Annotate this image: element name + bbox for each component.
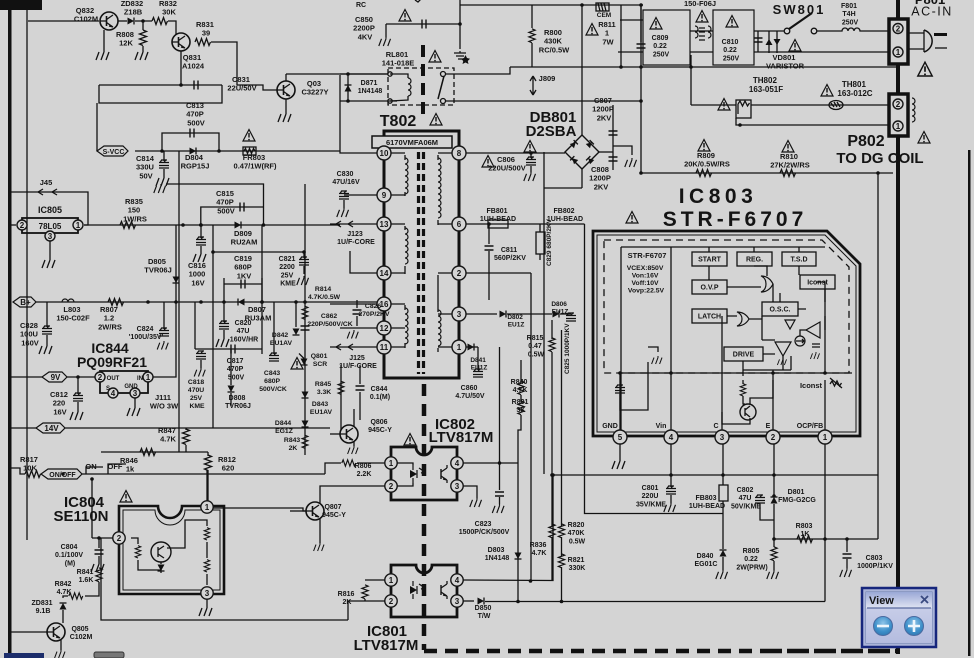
resistor R807 [108,299,124,306]
svg-text:C803 1000P/1KV: C803 1000P/1KV [857,555,893,570]
pin IC802-1 [385,457,397,469]
wire d808 v [230,349,232,385]
wire C816 drop [200,225,202,238]
jumper J125 arrows [336,344,353,350]
svg-text:TH801 163-012C: TH801 163-012C [837,80,872,98]
resistor R812 [205,455,212,471]
wire C816 gnd2 [200,246,202,252]
svg-text:Q03 C3227Y: Q03 C3227Y [301,79,328,97]
wire IC802 p2 left [320,486,385,503]
capacitor C844 [356,386,365,390]
pin IC804-2 [113,532,125,544]
svg-text:O.S.C.: O.S.C. [769,307,790,314]
capacitor C802 [755,495,765,504]
wire r805 dn [773,561,775,570]
pin T802-9 [377,188,391,202]
capacitor C8 filter [637,44,646,48]
svg-text:R807 1.2 2W/RS: R807 1.2 2W/RS [98,305,122,331]
wire col531 [530,273,532,581]
pin IC802-3 [451,480,463,492]
warning L801 [696,11,708,23]
svg-text:R831 39: R831 39 [196,20,216,38]
wire Q806 base [330,433,340,435]
wire fb802 down [539,224,541,232]
pin IC803-3 [715,430,729,444]
fuse F801 [838,28,864,31]
block Iconst [800,275,835,289]
node d871 b [346,99,350,103]
regulator IC844 box [100,371,148,393]
wire vin cap [620,373,648,410]
wire c826 v [356,300,358,308]
svg-text:R841 1.6K: R841 1.6K [77,569,96,584]
svg-text:D843 EU1AV: D843 EU1AV [310,401,333,416]
transformer core dashes [417,152,420,374]
bus 179 [178,151,180,452]
svg-text:C: C [713,423,718,430]
svg-text:R805 0.22 2W(PRW): R805 0.22 2W(PRW) [736,548,767,571]
optocoupler IC801 box [391,565,457,617]
svg-text:3: 3 [457,310,462,319]
relay contacts [388,72,392,76]
inductor L801 wb [708,26,711,38]
svg-text:TH802 163-051F: TH802 163-051F [749,76,783,94]
node rail 183 [181,223,185,227]
pin IC801-1 [385,574,397,586]
svg-text:R820 470K 0.5W: R820 470K 0.5W [568,522,587,545]
wire bridge bottom [581,169,583,188]
ground C804 [91,562,104,572]
svg-text:Q831 A1024: Q831 A1024 [182,53,205,71]
wire C814 gnd [163,169,165,176]
ground IC805 [42,258,55,268]
svg-text:R808 12K: R808 12K [116,30,136,48]
zener D871 [345,85,352,92]
ground IC804 pin3 [199,606,212,616]
wire c811 dn [488,251,490,258]
wire onoff drop [91,479,93,538]
wire hv rail [641,172,893,174]
wire R835 rail [84,224,340,226]
wire J45 [11,192,88,225]
wire c817 l [194,302,196,349]
capacitor C819 [241,280,245,289]
node 262-302 [260,300,264,304]
pin T802-16 [377,297,391,311]
node svcc left [160,149,164,153]
wire Q806 e [353,442,355,446]
svg-text:L803 150-C02F: L803 150-C02F [56,305,90,323]
wire C831 loop [99,85,222,103]
svg-text:3: 3 [455,597,460,606]
svg-text:R840 4.7K: R840 4.7K [511,379,530,394]
ground IC802 p3 [470,498,482,507]
wire d803 col [517,463,519,602]
pin IC801-3 [451,595,463,607]
wire col521b [520,395,522,402]
svg-text:D805 TVR06J: D805 TVR06J [144,257,172,275]
block REG [737,252,772,266]
ic803 internal wires [709,247,825,384]
capacitor C815 [240,203,244,212]
pin IC805-1 [73,220,83,230]
svg-text:R810 27K/2W/RS: R810 27K/2W/RS [770,152,810,170]
svg-text:D802 EU1Z: D802 EU1Z [507,314,524,329]
svg-text:LTV817M: LTV817M [429,429,494,446]
svg-text:TO DG COIL: TO DG COIL [836,150,923,167]
svg-text:C824 '100U/35V': C824 '100U/35V' [129,326,164,341]
bus 262 [261,225,263,302]
pin T802-1 [452,340,466,354]
wire filter mid2 [690,51,713,53]
capacitor C826 [353,310,362,314]
transistor Q806 [340,425,358,443]
ground C821 [297,276,309,285]
resistor R842 [69,593,83,599]
net flag 14V [36,423,65,433]
svg-text:STR-F6707: STR-F6707 [663,208,808,231]
led IC802 inner [410,465,425,483]
wire C828 drop [46,302,48,327]
wire col499 [499,347,501,463]
pin T802-10 [377,146,391,160]
svg-text:STR-F6707: STR-F6707 [628,251,667,260]
wire pin2 dn [773,444,775,496]
wire C812 drop [77,377,79,394]
resistor R835 [120,222,136,229]
svg-text:C812 220 16V: C812 220 16V [50,390,70,416]
ic IC803 dashed box [604,240,849,373]
svg-text:2: 2 [457,269,462,278]
zener D842 [293,329,300,336]
ground D840 [716,570,728,579]
wire right edge vertical [968,150,971,656]
warning DB801 [524,141,536,153]
jumper J809 arrows [530,76,536,95]
winding connect right [438,153,452,352]
wire 641 gap [640,5,642,42]
svg-text:IC805: IC805 [38,205,62,215]
zener ZD831 [60,603,67,610]
svg-text:C850 2200P 4KV: C850 2200P 4KV [353,15,377,41]
pin P802-1 [893,121,903,131]
wire c826 v2 [356,316,358,326]
wire pin8 right [466,152,565,154]
svg-text:12: 12 [380,324,389,333]
resistor R832 [152,18,168,25]
wire pin4 dn [670,444,672,487]
capacitor C830 [339,191,349,200]
block START [692,252,727,266]
svg-text:C801 220U 35V/KME: C801 220U 35V/KME [636,485,666,508]
wire c807 col [612,105,614,170]
wire C813 branch [162,133,219,151]
wire c807 gnd stub [613,146,632,155]
warning IC801 [291,358,303,370]
node Q831-C831 [179,83,183,87]
svg-text:Vin: Vin [656,423,667,430]
wire R806 left [325,463,341,474]
winding connect left [391,153,405,348]
jumper J123 arrows [336,221,353,227]
ground R808 [135,50,148,60]
ground C812 [70,410,83,420]
svg-text:3: 3 [133,389,138,398]
wire C821 drop [303,252,305,258]
wire IC804 net2 [138,560,161,573]
resistor R801 [518,401,524,415]
ground C814 [156,176,169,186]
pin T802-11 [377,340,391,354]
zener ZD832 [128,18,135,25]
wire c850 vert [459,0,461,49]
wire bottom isolation dashed [424,649,760,654]
warning relay core [429,51,441,63]
wire R842 left [63,596,68,598]
wire IC801 p3 [463,600,474,602]
wire R817 in [11,468,25,474]
svg-text:LTV817M: LTV817M [354,637,419,654]
node pin6 fb [487,222,491,226]
wire col489 [488,258,490,300]
phototransistor IC802 inner [441,465,447,483]
svg-text:C819 680P 1KV: C819 680P 1KV [234,254,254,280]
thermistor TH802 [736,100,751,118]
wire c823 gnd [499,497,501,504]
svg-text:R846 1k: R846 1k [120,456,140,474]
wire sw left [754,30,784,32]
svg-text:1: 1 [76,221,81,230]
pin IC803-5 [613,430,627,444]
svg-text:RL801 141-018E: RL801 141-018E [382,50,415,68]
resistor R806 [342,460,356,466]
net flag B+ [13,297,36,307]
relay coil RL801 [408,78,411,96]
relay core dashes [421,45,425,120]
ground C807 [625,158,637,167]
ground Q807 [314,543,324,551]
ground R805 [767,570,779,579]
node R832-R808 [141,19,145,23]
node 213-252 [211,250,215,254]
capacitor C823 [495,492,504,496]
svg-text:2: 2 [20,221,25,230]
wire C821 rail [213,251,304,253]
wire d840 dn [722,557,724,570]
svg-text:C809 0.22 250V: C809 0.22 250V [652,35,671,58]
svg-text:R816 2K: R816 2K [338,591,357,606]
svg-text:R815 0.47 0.5W: R815 0.47 0.5W [527,335,546,358]
isolation barrier vertical dashed [422,384,427,650]
connector P802 [889,94,908,136]
block LATCH [692,309,727,323]
wire Q805 base [11,631,47,633]
svg-text:C814 330U 50V: C814 330U 50V [136,154,156,180]
wire IC805 in [11,224,16,226]
zener D802 [500,311,507,318]
svg-text:2: 2 [896,25,901,34]
wire R831 right [211,42,237,85]
wire pin1 dn [824,444,826,602]
regulator IC805 box [22,218,78,233]
pin IC805-3 [45,231,55,241]
ferrite bead FB801 [488,220,508,228]
resistor R840 [518,381,524,395]
capacitor C843 [269,353,279,362]
svg-text:CEM: CEM [597,12,611,19]
ic IC803 inner box [621,247,825,433]
node B+ 262 [260,300,264,304]
wire IC802 p4 [463,462,518,464]
capacitor C811 [485,246,494,250]
svg-text:B+: B+ [20,298,31,307]
wire IC804 net3 [160,562,162,564]
wire C811 drop [488,224,490,244]
wire IC804 pin3 down [206,599,208,606]
wire IC804 pin1 up [206,470,208,501]
wire zd831 down [62,610,64,623]
capacitor C808cap [609,157,618,161]
node 9V C812 [76,375,80,379]
svg-text:C815 470P 500V: C815 470P 500V [216,189,236,215]
svg-text:R835 150 1W/RS: R835 150 1W/RS [123,197,147,223]
capacitor C801 [666,486,676,495]
svg-text:D840 EG01C: D840 EG01C [695,553,718,568]
transistor IC804 inner [151,542,171,562]
wire d802-d806 [507,313,552,315]
svg-text:P802: P802 [847,133,884,150]
wire IC802 p2 [397,483,413,486]
svg-text:Q832 C102M: Q832 C102M [74,6,98,24]
svg-text:6: 6 [457,220,462,229]
wire drive tr [743,396,745,404]
svg-text:R847 4.7K: R847 4.7K [158,426,178,444]
wire pin10 left [340,75,377,153]
wire pin3 dn [722,444,724,485]
diode D804 [190,148,197,155]
bus 213 [212,225,214,428]
resistor R843 [302,435,308,448]
wire IC801 p4 [463,475,553,581]
block OSC [762,302,798,316]
svg-text:C829 680P/2KV: C829 680P/2KV [546,218,553,266]
svg-text:Q807 945C-Y: Q807 945C-Y [322,504,346,519]
wire 691 v [690,55,692,105]
resistor R846 [140,449,156,456]
capacitor C825 [566,313,576,322]
svg-text:1: 1 [205,503,210,512]
wire c823 drop [499,463,501,490]
wire relay left bot [340,100,397,102]
svg-text:14: 14 [380,269,389,278]
wire IC804 net5 [206,542,208,558]
svg-text:C862 220P/500V/CK: C862 220P/500V/CK [307,313,352,328]
wire pin6 right [466,223,585,225]
svg-text:C818 470U 25V KME: C818 470U 25V KME [188,379,206,410]
node c850 [458,22,462,26]
svg-text:C844 0.1(M): C844 0.1(M) [370,386,390,401]
capacitor C804 [95,550,104,554]
wire c850 rail [386,23,460,25]
svg-text:C830 47U/16V: C830 47U/16V [332,171,360,186]
wire IC802 p3 [463,486,477,498]
svg-text:4: 4 [455,576,460,585]
svg-text:D850 T/W: D850 T/W [475,605,494,620]
resistor R817 [25,471,41,478]
wire Q805 emitter [60,640,62,650]
wire col552 upper [551,320,553,339]
svg-text:FB803 1UH-BEAD: FB803 1UH-BEAD [689,495,725,510]
wire col521c [518,415,521,463]
wire Q832 top rail [28,20,99,22]
capacitor C824 [159,328,169,337]
current source circle [795,336,805,346]
wire bridge right [599,151,613,153]
node pin8 c806 [529,151,533,155]
line filter box L801 right [713,10,754,65]
node B+ 201 [199,300,203,304]
wire d808 v2 [230,393,232,406]
svg-text:Q805 C102M: Q805 C102M [70,626,93,641]
node v373 [669,371,673,375]
capacitor C803 [843,554,852,558]
svg-text:6170VMFA06M: 6170VMFA06M [386,138,438,147]
svg-text:2: 2 [117,534,122,543]
pin IC844-3 [130,388,140,398]
node fb373 [823,371,827,375]
diode D808 [228,386,235,393]
transistor Q832 [100,12,118,30]
zener D844 [302,421,309,428]
svg-text:R814 4.7K/0.5W: R814 4.7K/0.5W [308,286,341,301]
svg-text:1: 1 [823,433,828,442]
svg-text:C820 47U 160V/HR: C820 47U 160V/HR [230,320,258,343]
wire R808 top [142,21,144,30]
node ac 621 [619,65,623,69]
bus 341 [340,365,342,430]
svg-text:C831 22U/50V: C831 22U/50V [227,75,256,93]
ic803 pin row wires [620,247,852,431]
wire c810 v [757,31,759,52]
node 201-225 [199,223,203,227]
wire pin12 left [340,327,377,329]
node ac 691 [689,65,693,69]
wire IC805 gnd [49,241,51,258]
svg-text:5: 5 [618,433,623,442]
node B+ 176 [174,300,178,304]
wire col561 [561,330,563,526]
opamp A1 [806,322,820,338]
svg-text:C823 1500P/CK/500V: C823 1500P/CK/500V [459,521,510,536]
svg-text:SE110N: SE110N [53,508,108,525]
wire C828 gnd [46,335,48,344]
svg-text:R836 4.7K: R836 4.7K [530,542,549,557]
ground Q806 [348,446,358,454]
warning R811 [586,24,598,36]
switch SW801 [784,28,790,34]
wire pin1 right [466,346,478,348]
wire IC801 p2 [348,601,385,620]
svg-text:3: 3 [720,433,725,442]
svg-text:78L05: 78L05 [39,222,62,231]
pin T802-14 [377,266,391,280]
wire left inner vertical [26,0,28,540]
wire c806 dn [530,166,532,172]
svg-text:2: 2 [389,482,394,491]
gate OR latch [737,312,749,326]
wire col544 [543,152,545,474]
wire mains vertical thick [896,0,900,654]
